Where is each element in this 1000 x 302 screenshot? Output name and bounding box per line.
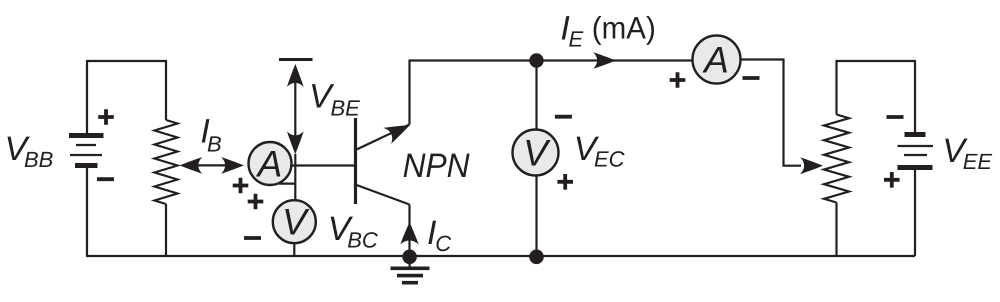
wire emitter up to top rail — [410, 61, 693, 125]
wire right-loop top — [837, 61, 916, 132]
label VEC — [574, 130, 625, 172]
polarity - battery VEE top — [887, 115, 904, 119]
battery VEE plate1 thick short — [905, 132, 926, 137]
transistor Q1 emitter line — [357, 125, 410, 150]
battery VBB plate3 thin long — [70, 154, 102, 156]
polarity + voltmeter V2 bottom — [557, 174, 573, 190]
svg-text:C: C — [435, 231, 451, 256]
polarity - battery VBB bottom — [97, 177, 114, 181]
label VEE — [942, 132, 992, 174]
polarity - voltmeter V2 top — [555, 115, 572, 119]
IB wiper double-arrow shaft — [184, 164, 239, 166]
wire right vertical below battery VEE — [914, 170, 916, 256]
polarity + ammeter A1 — [233, 178, 249, 194]
svg-text:(mA): (mA) — [592, 11, 656, 46]
VBE probe top bar — [279, 58, 313, 61]
VBE arrowhead down — [287, 131, 304, 154]
IE current arrowhead right — [593, 52, 616, 69]
polarity + voltmeter V1 top — [248, 194, 264, 210]
ground stub — [409, 256, 411, 267]
ammeter A1 — [249, 142, 292, 185]
polarity + battery VEE bottom — [884, 172, 900, 188]
wire collector down to ground node — [408, 205, 410, 257]
svg-text:BC: BC — [347, 227, 378, 252]
label IE (mA) — [560, 9, 655, 51]
svg-text:BE: BE — [331, 96, 361, 121]
transistor Q1 base bar — [354, 118, 357, 204]
svg-text:EC: EC — [594, 146, 625, 171]
svg-text:B: B — [207, 132, 222, 157]
node dot emitter top — [529, 53, 543, 67]
ammeter A2 — [693, 36, 741, 84]
polarity + ammeter A2 left — [670, 72, 686, 88]
polarity - ammeter A2 right — [743, 76, 760, 80]
svg-text:A: A — [256, 143, 283, 184]
voltmeter V1 (VBC) — [273, 200, 316, 243]
wire left vertical below battery VBB — [86, 168, 88, 256]
VBE arrowhead up — [287, 64, 304, 87]
wire voltmeter V2 to bottom rail — [535, 176, 537, 257]
polarity + battery VBB top — [98, 109, 114, 125]
battery VEE plate2 thin long — [898, 145, 934, 147]
ground bar2 — [397, 274, 423, 278]
svg-text:BB: BB — [24, 147, 53, 172]
R2 wiper arrowhead right — [800, 157, 823, 174]
label IC — [427, 214, 451, 256]
wire top rail A2 to right potentiometer wiper — [741, 60, 802, 166]
svg-text:NPN: NPN — [403, 147, 470, 185]
IB wiper arrowhead right — [221, 157, 244, 174]
wire stub ammeter A1 to node line — [279, 183, 295, 185]
polarity - voltmeter V1 bottom — [244, 236, 261, 240]
wire R2 bottom to rail — [835, 203, 837, 257]
svg-text:A: A — [702, 39, 729, 80]
wire bottom rail — [86, 255, 915, 257]
resistor R1 (VBB potentiometer zigzag) — [155, 120, 178, 204]
IB wiper arrowhead left — [180, 157, 203, 174]
battery VBB plate1 thick long — [69, 133, 104, 138]
node dot ground — [402, 249, 417, 264]
battery VEE plate4 thick long — [898, 165, 933, 170]
svg-text:V: V — [282, 202, 310, 243]
svg-text:V: V — [523, 132, 551, 173]
ground bar3 — [402, 281, 418, 285]
VBE measure arrow shaft — [294, 68, 296, 151]
wire voltmeter V1 to bottom rail — [293, 243, 295, 256]
battery VBB plate4 thick short — [75, 163, 98, 168]
ground bar1 — [391, 266, 430, 270]
wire left-loop top — [87, 61, 166, 133]
svg-text:EE: EE — [963, 149, 993, 174]
battery VEE plate3 thin short — [904, 154, 927, 156]
wire node line down to voltmeter V1 — [294, 154, 296, 201]
label VBB — [5, 130, 54, 172]
wire node E down to voltmeter V2 — [535, 61, 537, 130]
Q1 emitter arrowhead — [383, 117, 414, 144]
label VBE — [309, 77, 360, 120]
IC current arrowhead up — [400, 222, 418, 245]
resistor R2 (VEE potentiometer zigzag) — [824, 115, 849, 203]
transistor Q1 collector line — [357, 185, 410, 205]
label IB — [200, 113, 221, 157]
voltmeter V2 (VEC) — [513, 130, 559, 176]
battery VBB plate2 thin short — [76, 144, 96, 146]
label VBC — [328, 210, 378, 253]
wire base: ammeter A1 to transistor base — [290, 164, 355, 166]
node dot bottom center — [529, 249, 544, 264]
svg-text:E: E — [569, 27, 584, 52]
wire R1 bottom to rail — [165, 204, 167, 256]
